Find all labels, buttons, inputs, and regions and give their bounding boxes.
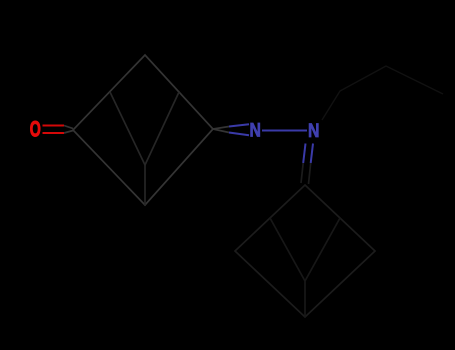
wire bbox=[322, 66, 443, 120]
N1-N2 single bond bbox=[262, 130, 307, 132]
C=O double bond bbox=[43, 126, 65, 134]
C=N1 double bond bbox=[229, 124, 249, 135]
C=O double bond carbon-side gray halves bbox=[64, 126, 73, 134]
wire bbox=[73, 55, 213, 205]
adamantane cage right bbox=[235, 185, 375, 317]
wire bbox=[235, 185, 375, 317]
wire bbox=[110, 92, 179, 165]
C=N1 double bond carbon-side gray halves bbox=[213, 127, 229, 133]
wire bbox=[304, 281, 306, 317]
svg-text:N: N bbox=[308, 119, 319, 141]
wire bbox=[144, 165, 146, 205]
svg-text:O: O bbox=[30, 116, 41, 141]
faint upper-right bonds bbox=[322, 66, 443, 120]
N2=C double bond carbon-side gray halves bbox=[301, 163, 311, 184]
svg-text:N: N bbox=[249, 119, 260, 141]
N2=C double bond bbox=[303, 144, 313, 164]
adamantane cage left bbox=[73, 55, 213, 205]
wire bbox=[270, 218, 340, 281]
